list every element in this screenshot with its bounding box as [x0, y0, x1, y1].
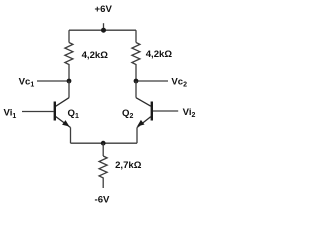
wire Vc1 lead	[37, 80, 69, 82]
wire common node to R3	[102, 143, 104, 156]
wire Q2 emitter down	[136, 128, 138, 144]
wire Q2 emitter to common node	[103, 142, 137, 144]
wire Q1 emitter to common node	[71, 142, 104, 144]
svg-text:-6V: -6V	[95, 194, 111, 205]
wire top rail	[69, 29, 136, 31]
resistor R2 4,2kOhm (right)	[132, 43, 140, 67]
node Vc1 junction	[67, 79, 72, 84]
svg-text:4,2kΩ: 4,2kΩ	[146, 49, 173, 60]
resistor R3 2,7kOhm (emitter)	[99, 156, 107, 180]
wire R1 bottom to collector node	[68, 67, 70, 82]
node Vc2 junction	[134, 79, 139, 84]
wire left drop to R1	[68, 30, 70, 42]
wire R3 bottom stub	[102, 180, 104, 188]
wire right drop to R2	[135, 30, 137, 42]
wire Q2 base lead	[153, 110, 178, 112]
resistor R1 4,2kOhm (left)	[65, 43, 73, 67]
wire +6V stub	[103, 23, 105, 30]
wire Q2 collector vertical	[135, 81, 137, 98]
transistor Q2	[136, 98, 152, 128]
node emitter common junction	[101, 141, 106, 146]
wire Q1 base lead	[22, 111, 54, 113]
svg-text:4,2kΩ: 4,2kΩ	[82, 50, 109, 61]
svg-text:+6V: +6V	[95, 4, 113, 15]
wire Q1 collector vertical	[68, 81, 70, 98]
wire Q1 emitter down	[70, 128, 72, 144]
wire R2 bottom to collector node	[135, 67, 137, 82]
wire Vc2 lead	[136, 80, 168, 82]
svg-text:2,7kΩ: 2,7kΩ	[115, 160, 142, 171]
node top junction	[101, 28, 106, 33]
transistor Q1	[55, 98, 71, 128]
